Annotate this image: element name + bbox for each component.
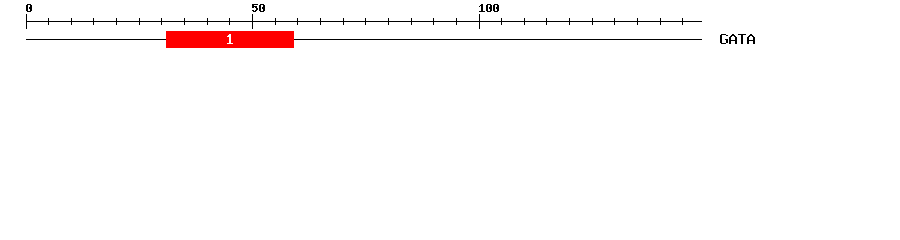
feature box 1 (red) xyxy=(166,31,294,48)
ruler label 100 xyxy=(479,4,499,12)
ruler label 50 xyxy=(252,4,265,12)
minor ticks every 5 units xyxy=(48,18,683,25)
major tick 100 xyxy=(479,14,480,29)
background xyxy=(0,0,900,58)
major tick 50 xyxy=(252,14,253,29)
ruler label 0 xyxy=(26,4,32,12)
sequence line xyxy=(26,39,702,40)
major tick 0 xyxy=(26,14,27,29)
feature label 1 (white) xyxy=(227,34,233,44)
sequence name GATA xyxy=(720,34,755,44)
ruler axis line xyxy=(26,21,702,22)
